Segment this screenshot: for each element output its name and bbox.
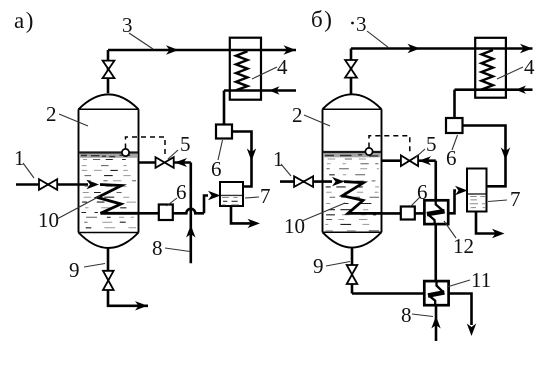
pipe pot6 to exchanger 12 (b) xyxy=(415,212,425,215)
pipe pot6 to separator 7 (a) xyxy=(232,132,252,187)
arrow on separator outlet (a) xyxy=(248,219,261,228)
leader 7 (b) xyxy=(488,200,507,202)
liquid level line (b) xyxy=(324,151,381,153)
separator 7 (b) xyxy=(467,169,487,212)
leader 2 (b) xyxy=(304,115,330,126)
coil outlet pipe (a) xyxy=(139,212,159,215)
up arrow on stream 8 (a) xyxy=(186,225,195,238)
pot 6 lower (b) xyxy=(401,207,415,220)
svg-text:6: 6 xyxy=(211,157,222,181)
bottoms outlet pipe 9 (b) xyxy=(352,247,424,293)
vessel 2 (b) shell xyxy=(323,94,382,247)
arrow toward valve 5 (b) xyxy=(419,156,432,165)
riser pipe to line 3 (a) xyxy=(108,50,296,93)
pipe pot6 to separator 7 (b) xyxy=(463,126,506,187)
label 3 (b) xyxy=(351,22,354,25)
svg-text:8: 8 xyxy=(401,303,412,327)
pipe exchanger 12 to exchanger 11 xyxy=(434,224,437,281)
dashed level-control line to valve 5 (a) xyxy=(126,137,166,155)
arrow into separator 7 (a) xyxy=(208,191,221,200)
up arrow on stream 8 (b) xyxy=(431,316,440,329)
leader 5 (a) xyxy=(168,150,178,159)
leader 8 (a) xyxy=(165,248,190,252)
condensate drain pipe (a) xyxy=(223,91,226,125)
leader 12 xyxy=(444,221,456,238)
svg-text:6: 6 xyxy=(446,146,457,170)
separator 7 (a) xyxy=(220,182,243,206)
arrow on separator outlet (b) xyxy=(492,229,505,238)
recycle pipe through valve 5 (b) xyxy=(382,161,436,201)
svg-text:9: 9 xyxy=(69,258,80,282)
leader 6 lower (b) xyxy=(411,197,421,207)
svg-text:б): б) xyxy=(311,7,333,32)
liquid level line (a) xyxy=(80,151,138,153)
arrow toward valve 5 (a) xyxy=(175,158,188,167)
pot 6 lower (a) xyxy=(159,205,173,221)
stream 8 inlet (b) xyxy=(435,305,438,341)
bottoms outlet pipe 9 (a) xyxy=(108,248,148,305)
svg-text:1: 1 xyxy=(273,147,284,171)
svg-text:6: 6 xyxy=(176,180,187,204)
leader 3 (b) xyxy=(367,31,389,48)
arrow into separator 7 (b) xyxy=(455,186,468,195)
leader 4 (b) xyxy=(497,67,523,79)
svg-text:2: 2 xyxy=(46,102,57,126)
leader 5 (b) xyxy=(415,149,425,158)
condenser 4 (a) xyxy=(230,38,261,100)
cooling water arrow (a) xyxy=(269,86,280,94)
condensate pot 6 upper (b) xyxy=(446,118,463,133)
arrow on line 3 (a) xyxy=(166,45,179,54)
down arrow on condensate pipe (b) xyxy=(501,148,510,161)
condenser 4 (b) xyxy=(475,38,506,98)
cooling water arrow (b) xyxy=(516,86,527,94)
arrow at end of line 3 (a) xyxy=(284,45,297,54)
leader 6 upper (a) xyxy=(218,140,223,160)
svg-text:10: 10 xyxy=(284,214,305,238)
pipe with hop over stream 8 (a) xyxy=(173,209,204,214)
leader 6 upper (b) xyxy=(452,135,458,150)
separator 7 outlet pipe (a) xyxy=(231,206,252,223)
condenser coil (b) xyxy=(482,50,494,90)
heating coil 10 (b) xyxy=(343,182,382,214)
valve on feed 1 (a) xyxy=(39,179,57,190)
svg-text:5: 5 xyxy=(180,132,191,156)
svg-text:10: 10 xyxy=(38,208,59,232)
svg-text:8: 8 xyxy=(152,236,163,260)
svg-text:11: 11 xyxy=(471,268,491,292)
leader 7 (a) xyxy=(245,197,259,198)
heat exchanger 11 xyxy=(424,281,448,305)
coil outlet pipe (b) xyxy=(382,212,401,215)
leader 9 (b) xyxy=(326,262,350,267)
down arrow on condensate pipe (a) xyxy=(247,149,256,162)
leader 11 xyxy=(447,280,470,287)
svg-text:9: 9 xyxy=(313,254,324,278)
svg-text:1: 1 xyxy=(14,146,25,170)
heating coil 10 (a) xyxy=(98,185,139,214)
leader 2 (a) xyxy=(59,114,88,126)
leader 9 (a) xyxy=(84,264,105,268)
cooling water line of condenser (b) xyxy=(455,88,533,91)
svg-text:5: 5 xyxy=(426,132,437,156)
level sensor circle (a) xyxy=(122,149,129,156)
recycle pipe through valve 5 (a) xyxy=(139,161,191,164)
liquid in vessel (b) xyxy=(324,153,380,157)
condenser coil (a) xyxy=(236,51,248,90)
leader 1 (b) xyxy=(281,164,291,176)
valve 9 (a) xyxy=(103,271,114,290)
leader 8 (b) xyxy=(412,314,433,317)
dashed level-control line to valve 5 (b) xyxy=(369,136,410,155)
svg-text:4: 4 xyxy=(524,55,535,79)
svg-text:а): а) xyxy=(14,8,35,33)
separator 7 outlet pipe (b) xyxy=(476,212,497,234)
heat exchanger 12 xyxy=(424,200,448,224)
valve 5 (b) xyxy=(401,155,418,166)
line 3 through condenser (a) xyxy=(231,49,260,51)
arrow at end of line 3 (b) xyxy=(520,44,533,53)
down arrow on drain xyxy=(467,324,476,337)
svg-text:3: 3 xyxy=(122,13,133,37)
svg-text:2: 2 xyxy=(292,103,303,127)
riser pipe to line 3 (b) xyxy=(351,49,533,95)
feed pipe 1 (b) xyxy=(280,180,332,183)
leader 10 (a) xyxy=(57,196,100,219)
leader 6 lower (a) xyxy=(167,198,178,206)
stream 8 riser (a) xyxy=(190,163,193,264)
level sensor circle (b) xyxy=(365,148,372,155)
svg-text:4: 4 xyxy=(277,55,288,79)
valve 5 (a) xyxy=(156,157,174,168)
valve on riser (b) xyxy=(345,60,357,78)
leader 10 (b) xyxy=(302,203,345,221)
feed arrow inside vessel (a) xyxy=(87,180,100,189)
arrow on line 3 (b) xyxy=(408,44,421,53)
cooling water line of condenser (a) xyxy=(224,89,296,92)
liquid in vessel (a) xyxy=(80,154,137,158)
arrow on bottoms outlet (a) xyxy=(135,301,148,310)
svg-text:3: 3 xyxy=(356,12,367,36)
condensate drain pipe (b) xyxy=(453,90,456,118)
inlet pipe to separator 7 (b) xyxy=(448,191,456,214)
vessel 2 (a) shell xyxy=(79,94,139,248)
leader 1 (a) xyxy=(23,163,34,178)
valve on riser (a) xyxy=(103,61,115,79)
valve 9 (b) xyxy=(347,265,358,284)
condensate pot 6 upper (a) xyxy=(216,125,232,139)
feed pipe 1 (a) xyxy=(16,183,88,186)
leader 3 (a) xyxy=(129,33,153,49)
inlet pipe to separator 7 (a) xyxy=(204,196,208,214)
svg-text:7: 7 xyxy=(510,187,521,211)
line 3 through condenser (b) xyxy=(476,47,505,49)
valve on feed 1 (b) xyxy=(294,176,313,187)
svg-text:7: 7 xyxy=(260,184,271,208)
leader 4 (a) xyxy=(252,67,277,79)
spent bottoms drain from exchanger 11 xyxy=(449,294,472,326)
feed arrow inside vessel (b) xyxy=(332,177,345,186)
